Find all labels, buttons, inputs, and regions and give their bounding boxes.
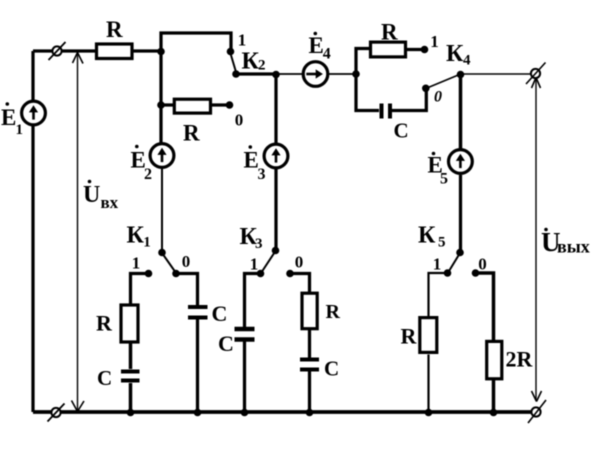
svg-text:К: К [418, 223, 436, 249]
svg-text:1: 1 [430, 32, 439, 51]
svg-text:0: 0 [478, 255, 487, 274]
svg-text:0: 0 [235, 111, 244, 130]
svg-text:3: 3 [255, 236, 263, 252]
svg-text:C: C [97, 366, 112, 390]
svg-text:U: U [83, 182, 100, 208]
svg-text:вых: вых [557, 237, 590, 257]
svg-text:E: E [309, 33, 324, 58]
svg-text:C: C [212, 301, 228, 326]
svg-text:2: 2 [258, 58, 266, 74]
svg-text:К: К [127, 222, 145, 248]
svg-text:R: R [381, 20, 398, 45]
svg-text:C: C [394, 119, 409, 143]
svg-text:R: R [96, 311, 113, 336]
svg-text:R: R [326, 301, 341, 323]
svg-text:0: 0 [434, 89, 442, 106]
svg-text:2: 2 [144, 166, 152, 183]
svg-text:2R: 2R [506, 347, 534, 372]
svg-text:0: 0 [182, 252, 191, 271]
svg-text:4: 4 [323, 46, 331, 63]
svg-text:1: 1 [16, 122, 24, 138]
svg-text:1: 1 [250, 255, 259, 274]
svg-text:5: 5 [440, 171, 448, 188]
svg-text:4: 4 [463, 53, 471, 69]
svg-text:1: 1 [238, 31, 247, 50]
svg-text:0: 0 [295, 253, 304, 272]
svg-text:3: 3 [258, 166, 266, 183]
svg-text:К: К [446, 41, 464, 67]
svg-text:5: 5 [438, 235, 446, 251]
svg-text:R: R [183, 121, 200, 146]
svg-text:1: 1 [132, 254, 141, 273]
svg-text:R: R [401, 324, 418, 349]
svg-text:C: C [324, 357, 339, 381]
svg-text:вх: вх [101, 193, 119, 212]
svg-text:1: 1 [433, 255, 442, 274]
svg-text:1: 1 [143, 235, 151, 251]
svg-text:C: C [218, 331, 234, 356]
svg-text:К: К [242, 49, 260, 75]
svg-text:E: E [1, 105, 16, 130]
svg-text:R: R [106, 17, 123, 42]
